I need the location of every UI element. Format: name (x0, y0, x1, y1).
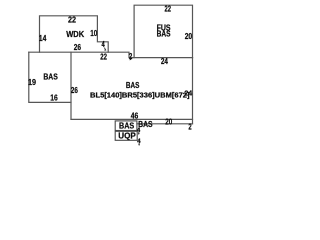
svg-text:22: 22 (68, 15, 76, 25)
svg-text:BAS: BAS (138, 119, 153, 129)
svg-text:BAS: BAS (126, 80, 140, 90)
svg-text:BAS: BAS (157, 29, 171, 39)
svg-text:BAS: BAS (43, 71, 58, 81)
svg-text:19: 19 (28, 77, 36, 87)
arrow 4 UQP box (138, 143, 140, 145)
big BAS left edge (70, 52, 72, 119)
svg-text:4: 4 (102, 39, 105, 49)
bottom BAS box (115, 121, 137, 131)
svg-text:20: 20 (185, 31, 193, 41)
svg-text:24: 24 (161, 56, 168, 66)
UQP box (115, 131, 137, 140)
step 2 arrow (129, 58, 131, 60)
svg-text:10: 10 (90, 28, 97, 38)
svg-text:20: 20 (165, 116, 172, 126)
big BAS bottom line (71, 118, 193, 120)
svg-text:24: 24 (184, 91, 192, 98)
main house top line (29, 52, 193, 57)
house right edge (192, 58, 194, 124)
svg-text:22: 22 (165, 3, 172, 13)
svg-text:22: 22 (100, 51, 107, 61)
FUS box (134, 5, 192, 57)
svg-text:16: 16 (50, 93, 58, 103)
svg-text:14: 14 (39, 33, 47, 43)
svg-text:2: 2 (188, 121, 191, 131)
arrow 4 bottom BAS box (138, 132, 140, 134)
step arrow (105, 48, 106, 51)
left BAS box (29, 52, 71, 102)
svg-text:26: 26 (74, 42, 81, 52)
svg-text:WDK: WDK (66, 29, 85, 39)
bottom 2ft strip line (137, 123, 193, 125)
WDK deck outline (40, 16, 109, 52)
svg-text:BAS: BAS (119, 120, 134, 130)
svg-text:UQP: UQP (118, 130, 136, 140)
svg-text:26: 26 (71, 85, 78, 95)
svg-text:BL5[140]BR5[336]UBM[672]: BL5[140]BR5[336]UBM[672] (90, 91, 190, 100)
